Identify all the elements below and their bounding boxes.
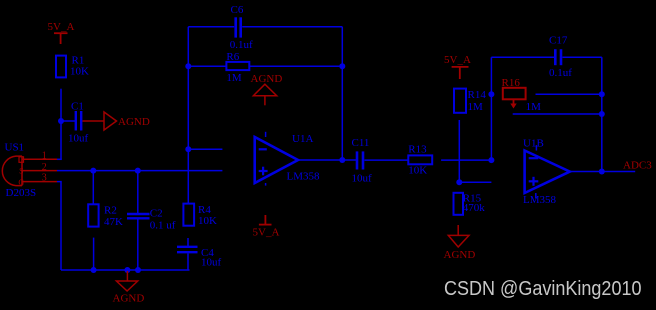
wire C2 top — [137, 171, 139, 213]
wire right rail U1B feedback — [601, 57, 603, 171]
svg-text:0.1 uf: 0.1 uf — [150, 219, 176, 231]
junction node R2 branch — [90, 168, 96, 174]
resistor R4 — [183, 204, 194, 226]
pin 2 lead — [22, 170, 57, 172]
wire R16 right — [536, 93, 602, 95]
svg-text:0.1uf: 0.1uf — [230, 39, 253, 51]
svg-text:C11: C11 — [352, 137, 370, 149]
svg-text:1M: 1M — [226, 72, 242, 84]
pin 1 lead — [22, 158, 57, 160]
junction node C2 on rail — [135, 267, 141, 273]
resistor R14 — [454, 89, 466, 113]
resistor R2 — [88, 204, 98, 226]
power port AGND (bottom) — [116, 271, 137, 291]
junction node minus U1B — [488, 157, 494, 163]
junction node R6 right — [339, 63, 345, 69]
wire ground rail bottom — [61, 269, 190, 271]
svg-text:R2: R2 — [104, 205, 117, 217]
wire divider to U1B plus — [459, 181, 491, 183]
svg-text:AGND: AGND — [444, 249, 476, 261]
junction node R2 on rail — [91, 267, 97, 273]
resistor R15 — [454, 193, 464, 215]
wire U1B output to ADC3 — [570, 171, 635, 173]
wire C17 left — [491, 56, 554, 58]
wire R14 bottom to divider node — [458, 120, 460, 182]
svg-text:10uf: 10uf — [201, 256, 222, 268]
op-amp U1A — [255, 132, 298, 186]
svg-text:1M: 1M — [526, 101, 542, 113]
wire C11 to R13 — [365, 159, 409, 161]
svg-text:U1A: U1A — [292, 133, 313, 145]
junction node R6 left — [185, 63, 191, 69]
capacitor C4 — [177, 247, 198, 252]
svg-text:5V_A: 5V_A — [48, 21, 75, 33]
svg-text:R6: R6 — [226, 51, 239, 63]
junction node wiper — [599, 111, 605, 117]
wire R2 top — [92, 171, 94, 205]
pin pad mark pin1 — [19, 157, 24, 163]
power port AGND (right arrow, at C1) — [83, 112, 117, 130]
svg-text:LM358: LM358 — [523, 194, 557, 206]
svg-text:R13: R13 — [408, 144, 427, 156]
wire left feedback rail — [187, 27, 189, 204]
svg-text:LM358: LM358 — [287, 171, 321, 183]
wire R6 right — [249, 65, 342, 67]
wire U1A output — [298, 159, 356, 161]
junction node C2 branch — [135, 168, 141, 174]
wire junction to C1 — [61, 120, 75, 122]
svg-text:5V_A: 5V_A — [444, 54, 471, 66]
svg-text:10uf: 10uf — [352, 172, 373, 184]
wire R16 wiper to rail — [513, 113, 602, 115]
svg-text:0.1uf: 0.1uf — [549, 67, 572, 79]
svg-text:U1B: U1B — [523, 138, 544, 150]
wire pin3 corner down — [57, 182, 61, 270]
svg-text:C2: C2 — [150, 208, 163, 220]
svg-text:10K: 10K — [408, 164, 427, 176]
capacitor C11 — [357, 151, 363, 169]
svg-text:R14: R14 — [468, 89, 487, 101]
resistor R13 — [408, 155, 432, 164]
svg-text:ADC3: ADC3 — [623, 159, 652, 171]
svg-text:AGND: AGND — [251, 73, 283, 85]
svg-text:47K: 47K — [104, 216, 123, 228]
wire R6 left — [188, 65, 226, 67]
svg-text:AGND: AGND — [118, 116, 150, 128]
svg-text:5V_A: 5V_A — [253, 227, 280, 239]
svg-text:US1: US1 — [5, 142, 25, 154]
junction node AGND on rail — [124, 267, 130, 273]
svg-text:10uf: 10uf — [68, 133, 89, 145]
svg-text:C6: C6 — [231, 4, 244, 16]
wire C6 left — [188, 26, 234, 28]
svg-text:1M: 1M — [468, 101, 484, 113]
trimmer R16 body — [503, 88, 526, 100]
power port AGND (up arrow, mid) — [253, 84, 276, 105]
capacitor C1 — [76, 111, 81, 131]
power port AGND (right) — [448, 225, 469, 247]
wire R2 bottom — [93, 238, 95, 270]
svg-text:D203S: D203S — [6, 187, 37, 199]
svg-text:G: G — [18, 178, 24, 187]
trimmer R16 wiper arrow — [510, 99, 516, 108]
wire C2 bottom — [137, 219, 139, 270]
op-amp U1B — [525, 145, 570, 198]
pin 3 lead — [22, 181, 57, 183]
wire pin2 to op-amp plus input — [57, 170, 222, 172]
junction node minus branch — [185, 146, 191, 152]
junction node output — [339, 157, 345, 163]
svg-text:470k: 470k — [463, 202, 486, 214]
wire C4 bottom — [187, 254, 189, 271]
sensor US1 body — [2, 156, 22, 186]
svg-text:10K: 10K — [70, 66, 89, 78]
junction node divider — [456, 179, 462, 185]
junction node R16 right — [599, 91, 605, 97]
svg-text:R16: R16 — [502, 77, 521, 89]
junction node R16 left — [488, 91, 494, 97]
wire C17 right — [563, 56, 602, 58]
svg-text:AGND: AGND — [113, 292, 145, 304]
resistor R6 — [226, 62, 249, 70]
svg-text:10K: 10K — [198, 215, 217, 227]
wire left rail U1B feedback — [490, 57, 492, 160]
power 5V_A (top left) — [54, 33, 68, 44]
capacitor C17 — [555, 49, 561, 65]
svg-text:C1: C1 — [71, 101, 84, 113]
capacitor C6 — [236, 17, 241, 37]
wire right feedback rail — [341, 27, 343, 160]
svg-text:CSDN @GavinKing2010: CSDN @GavinKing2010 — [444, 278, 642, 300]
wire C6 right — [242, 26, 342, 28]
power 5V_A (below U1A) — [259, 215, 272, 225]
power 5V_A (right) — [452, 67, 469, 79]
wire R4 to C4 — [187, 238, 189, 247]
wire pin1 corner — [57, 158, 62, 160]
capacitor C2 — [127, 214, 150, 218]
wire minus branch to op-amp — [188, 148, 222, 150]
wire R13 right to U1B minus node — [441, 159, 491, 161]
junction node output U1B — [599, 169, 605, 175]
resistor R1 — [56, 56, 66, 78]
wire R1 bottom to US1 pin1 — [60, 89, 62, 160]
junction node C1 branch — [58, 118, 64, 124]
svg-text:C17: C17 — [549, 35, 568, 47]
